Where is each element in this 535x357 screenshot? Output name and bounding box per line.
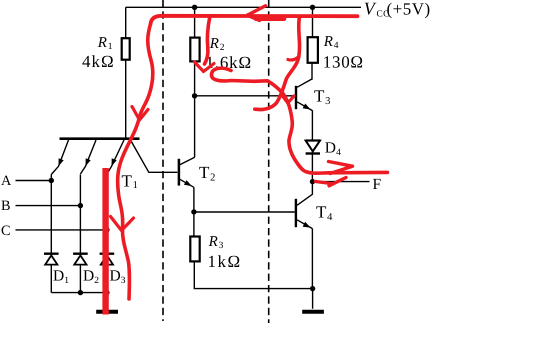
svg-text:1: 1: [108, 42, 113, 52]
svg-text:1: 1: [64, 276, 69, 286]
svg-text:4: 4: [334, 41, 339, 51]
svg-text:D: D: [325, 140, 336, 157]
svg-text:T: T: [316, 203, 327, 222]
svg-text:B: B: [1, 198, 11, 214]
svg-text:4kΩ: 4kΩ: [82, 52, 115, 71]
svg-text:C: C: [1, 223, 11, 239]
svg-text:1kΩ: 1kΩ: [208, 252, 242, 271]
svg-text:R: R: [97, 35, 107, 51]
svg-text:D: D: [110, 268, 121, 285]
svg-text:R: R: [208, 234, 218, 250]
svg-text:2: 2: [94, 276, 99, 286]
svg-text:2: 2: [220, 43, 225, 53]
svg-text:V: V: [364, 0, 377, 19]
svg-text:3: 3: [325, 96, 330, 107]
svg-text:D: D: [83, 268, 94, 285]
svg-text:4: 4: [327, 212, 333, 223]
svg-text:F: F: [373, 176, 382, 193]
svg-text:D: D: [53, 268, 64, 285]
svg-text:T: T: [122, 171, 133, 190]
svg-text:130Ω: 130Ω: [323, 52, 364, 71]
svg-text:T: T: [199, 163, 210, 182]
svg-text:2: 2: [210, 172, 215, 183]
svg-text:A: A: [1, 173, 12, 189]
svg-text:R: R: [323, 34, 333, 50]
svg-text:3: 3: [219, 241, 224, 251]
svg-text:(+5V): (+5V): [387, 0, 431, 19]
svg-text:T: T: [314, 86, 325, 105]
svg-text:4: 4: [336, 148, 341, 158]
svg-text:1: 1: [133, 180, 138, 191]
svg-text:3: 3: [121, 276, 126, 286]
svg-text:R: R: [209, 36, 219, 52]
